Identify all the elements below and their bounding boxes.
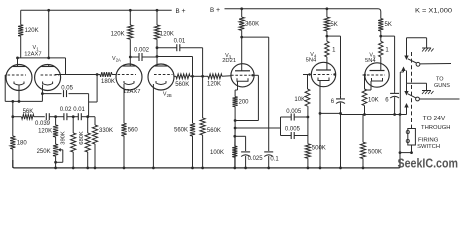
label V1 [33, 45, 40, 52]
capacitor 0.025 [241, 136, 250, 169]
label 5N4 V5 [365, 58, 376, 64]
svg-text:5K: 5K [385, 22, 392, 28]
wire coil bottom return [399, 145, 413, 154]
label 120K V2B [160, 32, 174, 38]
node 56K row left [11, 115, 14, 118]
resistor 560K V2B grid [174, 74, 193, 79]
svg-text:10K: 10K [368, 97, 379, 103]
resistor 120K V3 grid [208, 74, 231, 79]
wire V2A cathode [123, 84, 125, 123]
resistor 1 V5 plate [379, 36, 383, 63]
junction rail V2B cathode [152, 167, 155, 170]
label 560 [128, 128, 139, 134]
svg-text:390K: 390K [61, 131, 67, 145]
resistor 120K bias [53, 117, 58, 144]
svg-text:360K: 360K [245, 21, 259, 27]
capacitor 0.039 [46, 113, 55, 120]
label 560K no1 [174, 128, 188, 134]
junction rail 390K [72, 167, 75, 170]
resistor 200 V3 cathode [233, 90, 238, 168]
wire V2B feedback loop [157, 57, 193, 77]
resistor 500K V4 [305, 136, 310, 170]
wire V3 plate lead [241, 37, 243, 64]
label 180K [101, 79, 115, 85]
svg-text:12AX7: 12AX7 [123, 89, 140, 95]
triode V1A [6, 58, 32, 91]
wire V3 cathode lead [235, 88, 237, 91]
triode V2A [116, 57, 142, 90]
svg-text:560: 560 [128, 128, 139, 134]
capacitor 0.005 upper [281, 114, 308, 121]
node 180K junction [96, 73, 99, 76]
capacitor 0.1 [264, 146, 273, 170]
node V1 cathode junction [41, 92, 44, 95]
label 6 V4 [331, 99, 335, 105]
label V3 [225, 53, 232, 60]
label 120K V2A [111, 32, 125, 38]
label V2B [163, 91, 172, 98]
capacitor 6 V5 [390, 91, 399, 114]
svg-text:K = X1,000: K = X1,000 [415, 9, 453, 15]
svg-text:120K: 120K [38, 129, 52, 135]
svg-text:500K: 500K [312, 146, 326, 152]
label V5 [369, 52, 376, 59]
label 56K [23, 109, 34, 115]
label TO 24V [423, 116, 446, 122]
wire cathode bus y101 [5, 94, 42, 103]
label 0.025 [248, 156, 264, 162]
node V2A plate [129, 56, 132, 59]
svg-text:TO: TO [436, 77, 444, 83]
capacitor C1 0.05 [42, 90, 88, 97]
triode V1B [35, 65, 61, 91]
label 560K no2 [207, 128, 221, 134]
label V4 [310, 52, 317, 59]
resistor R1 120K (V1A plate load) [18, 10, 23, 58]
resistor 5K V5 [378, 19, 383, 36]
wire contact blade 2 [408, 94, 460, 99]
node V4 shield dot [333, 73, 335, 75]
svg-text:0.01: 0.01 [174, 39, 186, 45]
svg-text:B: B [176, 8, 180, 15]
svg-text:SeekIC.com: SeekIC.com [398, 157, 459, 171]
svg-text:560K: 560K [207, 128, 221, 134]
wire to pulse caps [235, 127, 280, 129]
capacitor 0.01 divider [73, 113, 95, 120]
node 560K junction [191, 75, 194, 78]
svg-text:120K: 120K [111, 32, 125, 38]
wire V4 screen branch [327, 36, 341, 96]
svg-text:0.039: 0.039 [35, 121, 51, 127]
label 0.02 [60, 107, 72, 113]
label K = X1000 [415, 9, 453, 15]
node V5 grid dot [364, 74, 366, 76]
wire V1B cathode lead [41, 85, 43, 94]
label B+ right rail [210, 7, 220, 14]
wire cathode line V5 [341, 113, 401, 116]
svg-text:100K: 100K [210, 150, 224, 156]
resistor 56K [13, 114, 45, 119]
resistor 500K V5 [360, 115, 365, 170]
wire B+ rail right section [225, 9, 381, 19]
thyratron V5 [363, 63, 390, 88]
svg-text:180K: 180K [101, 79, 115, 85]
svg-text:TO 24V: TO 24V [423, 116, 446, 122]
wire V1A grid lead [5, 75, 6, 101]
wire ground1 drop [426, 38, 428, 48]
svg-text:120K: 120K [160, 32, 174, 38]
node V4 grid dot [308, 73, 310, 75]
wire 0.025 top [233, 135, 245, 138]
svg-text:THROUGH: THROUGH [421, 125, 451, 131]
resistor 10K V5 [362, 89, 367, 115]
label THROUGH [421, 125, 451, 131]
wire V4 cathode down [319, 87, 322, 170]
wire 180K junction down [89, 75, 98, 103]
wire V5 screen branch [381, 36, 395, 91]
capacitor 0.002 [130, 53, 157, 61]
svg-text:12AX7: 12AX7 [24, 52, 41, 58]
svg-text:0.025: 0.025 [248, 156, 264, 162]
resistor 180 (cathode) [10, 101, 15, 167]
label 0.039 [35, 121, 51, 127]
svg-text:5K: 5K [330, 22, 337, 28]
svg-text:B: B [210, 7, 214, 14]
svg-text:250K: 250K [37, 149, 51, 155]
svg-text:SWITCH: SWITCH [417, 144, 440, 150]
wire cathode line V4 [319, 112, 342, 115]
node divider A [54, 115, 57, 118]
label 100K [210, 150, 224, 156]
wire V1A cathode lead [18, 85, 20, 102]
node V3 plate junction [240, 36, 243, 39]
relay coil [406, 129, 415, 146]
resistor 100K [233, 167, 236, 170]
node divider C [86, 115, 89, 118]
svg-text:0.01: 0.01 [73, 107, 85, 113]
svg-text:+: + [216, 7, 220, 14]
contact circle 1 [416, 62, 420, 66]
wire V2B plate into tube [156, 48, 158, 64]
svg-text:10K: 10K [294, 97, 305, 103]
wire V3 shield to cathode [235, 75, 258, 120]
wire V5 cathode lead [365, 87, 372, 90]
wire 0.05 to divider [88, 94, 90, 117]
svg-text:120K: 120K [207, 82, 221, 88]
label 0.01 divider [73, 107, 85, 113]
label 360K [245, 21, 259, 27]
svg-text:0.002: 0.002 [134, 48, 150, 54]
resistor 330K [92, 117, 97, 168]
capacitor 6 V4 [336, 96, 345, 170]
junction rail V2A cathode [123, 167, 126, 170]
label 560K grid [175, 82, 189, 88]
svg-text:GUNS: GUNS [434, 83, 450, 89]
svg-text:0.1: 0.1 [270, 156, 279, 162]
ground symbol 2 [422, 91, 434, 95]
svg-text:FIRING: FIRING [418, 137, 439, 143]
label 250K [37, 149, 51, 155]
label 390K vertical [61, 131, 67, 145]
triode V2B [148, 64, 174, 90]
node 0.01 junction [201, 75, 204, 78]
junction right rail 5K V4 [326, 7, 329, 10]
relay NO2 arm [400, 103, 408, 115]
label 0.005 upper [286, 109, 302, 115]
label 5K V4 [330, 22, 337, 28]
wire V5 grid down [364, 75, 366, 89]
relay NO1 riser [400, 67, 405, 115]
label 5N4 V4 [306, 58, 317, 64]
relay dashed actuator line [411, 52, 413, 128]
label FIRING [418, 137, 439, 143]
wire grid row to 120K V3 [193, 75, 209, 77]
label SWITCH [417, 144, 440, 150]
label 500K V5 [368, 150, 382, 156]
wire ground rail main [13, 160, 400, 168]
label 0.002 [134, 48, 150, 54]
resistor 560K no2 [200, 76, 205, 168]
wire V1B plate lead from rail [47, 10, 50, 59]
resistor 10K V4 [305, 89, 310, 117]
label 120K R1 [25, 28, 39, 34]
capacitor 0.005 lower [281, 117, 308, 139]
svg-text:2A: 2A [116, 58, 121, 63]
label 5K V5 [385, 22, 392, 28]
node V4 supply junction [326, 35, 329, 38]
svg-text:0.005: 0.005 [286, 109, 302, 115]
wire relay NC1 feed [404, 38, 426, 60]
resistor 360K [239, 9, 244, 37]
node divider B [72, 115, 75, 118]
label 0.1 [270, 156, 279, 162]
svg-text:200: 200 [239, 99, 250, 105]
svg-text:56K: 56K [23, 109, 34, 115]
svg-text:120K: 120K [25, 28, 39, 34]
wire 250K wiper [54, 148, 63, 164]
wire ground2 drop [426, 83, 428, 90]
resistor 120K V2B plate [154, 10, 159, 47]
label 12AX7 V2 [123, 89, 140, 95]
junction rail 330K [94, 167, 97, 170]
capacitor 0.01 coupling V3 [157, 44, 203, 76]
wire V1B grid loop [55, 58, 88, 75]
resistor 120K V2A plate [128, 10, 133, 57]
wire V1 plate node line [16, 57, 65, 60]
label 120K V3 grid [207, 82, 221, 88]
wire contact blade 1 [408, 59, 451, 64]
ground symbol 1 [422, 48, 434, 52]
node V3 cathode node2 [234, 127, 237, 130]
svg-text:0.02: 0.02 [60, 107, 72, 113]
label 0.01 coupling [174, 39, 186, 45]
junction on left rail x48.7 [47, 9, 50, 12]
svg-text:2B: 2B [167, 93, 172, 98]
label B+ left rail [176, 8, 186, 15]
resistor 390K [71, 117, 76, 168]
resistor 180K V2A grid [88, 72, 116, 77]
node pulse node B [307, 116, 310, 119]
wire B+ rail left section [21, 9, 172, 11]
resistor 5K V4 [324, 9, 329, 36]
svg-text:560K: 560K [175, 82, 189, 88]
label 680K vertical [79, 131, 85, 145]
label TO GUNS [434, 77, 450, 89]
wire NO bus down to rail [399, 113, 402, 168]
svg-text:0.05: 0.05 [61, 86, 73, 92]
node V2B loop top [156, 55, 159, 58]
svg-text:2D21: 2D21 [222, 58, 236, 64]
svg-text:5N4: 5N4 [306, 58, 317, 64]
svg-text:500K: 500K [368, 150, 382, 156]
contact circle 2 [416, 97, 420, 101]
junction on left rail x157 [156, 9, 159, 12]
wire relay NC2 arrow [404, 83, 408, 95]
resistor 680K [85, 117, 90, 168]
label 10K V5 [368, 97, 379, 103]
label 0.005 lower [285, 127, 301, 133]
label 2D21 [222, 58, 236, 64]
label V2A [112, 56, 121, 63]
wire V2B cathode [152, 84, 154, 168]
svg-text:560K: 560K [174, 128, 188, 134]
label 0.05 [61, 86, 73, 92]
svg-text:+: + [182, 8, 186, 15]
resistor 560 V2A cathode [121, 123, 126, 168]
svg-text:180: 180 [17, 140, 28, 146]
label 10K V4 [294, 97, 305, 103]
resistor 100K body [232, 128, 237, 168]
junction rail 560K no1 [191, 167, 194, 170]
label 330K [99, 128, 113, 134]
node V2B plate top [156, 46, 159, 49]
junction on left rail x130 [129, 9, 132, 12]
node V5 supply junction [379, 35, 382, 38]
label 120K bias [38, 129, 52, 135]
thyratron V4 [309, 62, 336, 87]
resistor 1 V4 plate [325, 36, 329, 62]
wire V4 grid down [307, 75, 309, 90]
node V3 cathode node1 [234, 119, 237, 122]
junction rail 250K [54, 167, 57, 170]
label 1 V5 [385, 48, 389, 54]
wire V3 plate supply branch [242, 37, 269, 145]
junction rail 560K no2 [201, 167, 204, 170]
label 12AX7 V1 [24, 52, 41, 58]
svg-text:330K: 330K [99, 128, 113, 134]
capacitor 0.02 [56, 113, 74, 120]
resistor 560K no1 [190, 76, 195, 168]
label 1 V4 [332, 48, 336, 54]
potentiometer 250K [53, 144, 58, 168]
label 180 [17, 140, 28, 146]
junction rail 680K [86, 167, 89, 170]
junction right rail 360K [240, 7, 243, 10]
svg-text:680K: 680K [79, 131, 85, 145]
svg-text:0.005: 0.005 [285, 127, 301, 133]
label 500K V4 [312, 146, 326, 152]
label 200 [239, 99, 250, 105]
wire V4 grid [303, 74, 310, 76]
wire relay NC2 T [407, 71, 427, 84]
wire caps bracket left [280, 117, 282, 136]
thyratron V3 [231, 64, 254, 88]
label 6 V5 [385, 97, 389, 103]
watermark [398, 157, 459, 171]
node V3 shield dot [251, 74, 253, 76]
